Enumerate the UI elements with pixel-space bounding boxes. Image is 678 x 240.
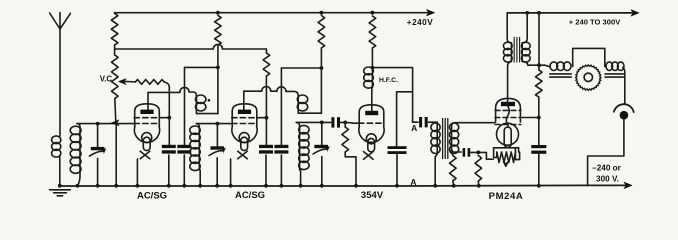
resistor R7 anode feed: [371, 11, 375, 15]
wire bias row: [452, 151, 462, 153]
coil L4 RF secondary: [198, 127, 201, 186]
speaker movement: [545, 65, 550, 67]
coil L6 detector secondary: [300, 126, 301, 186]
node screen junction V2: [265, 116, 269, 120]
wire antenna down-lead: [59, 29, 61, 136]
svg-text:AC/SG: AC/SG: [235, 190, 265, 201]
wire: [164, 82, 169, 93]
wire L1 to earth bus: [59, 157, 61, 186]
svg-text:A: A: [411, 123, 417, 133]
capacitor C5 grid condenser: [331, 117, 334, 127]
transformer T2 output: [507, 13, 511, 61]
wire V2 top cap anode: [243, 91, 245, 109]
transformer T1 AF intervalve: [435, 122, 437, 186]
potentiometer VC volume control: [112, 55, 119, 99]
svg-text:–240 or: –240 or: [592, 164, 621, 173]
wire to filament: [478, 152, 493, 159]
wire +240-300V HT bus: [507, 12, 632, 15]
resistor R10 field/divider: [537, 11, 541, 15]
coil HFC choke: [371, 68, 373, 88]
wire: [114, 45, 116, 55]
tube V2 AC/SG: [232, 104, 257, 127]
wire heater lead V2: [230, 159, 232, 186]
wire anode tap to AF: [372, 68, 412, 123]
variable capacitor VC1 tuning: [96, 122, 100, 126]
svg-text:AC/SG: AC/SG: [137, 191, 167, 202]
coil L3 RF transformer primary: [196, 96, 218, 114]
capacitor C4 bypass: [280, 68, 282, 146]
wiper arrow of V.C pot: [119, 79, 127, 85]
tube V4 PM24A output pentode: [496, 98, 521, 122]
node bias junction: [450, 150, 454, 154]
svg-text:+240V: +240V: [407, 18, 433, 27]
wire screen bypass branch: [169, 91, 180, 93]
capacitor C1 bypass: [162, 145, 176, 148]
wire to tube V1 top cap: [148, 92, 169, 110]
svg-text:300 V.: 300 V.: [596, 175, 619, 184]
wire to V4 grid: [455, 122, 495, 124]
resistor R5 anode load 2: [320, 11, 324, 15]
resistor R8 bias: [450, 156, 457, 182]
capacitor C9 output: [531, 145, 546, 148]
arrow on grid wire: [112, 120, 120, 126]
capacitor C3 bypass: [259, 145, 273, 148]
capacitor C8 bias bypass: [463, 148, 466, 157]
svg-text:354V: 354V: [361, 190, 384, 201]
capacitor C2 bypass: [184, 67, 186, 146]
wire earth bus: [60, 184, 626, 187]
coil L2 secondary: [77, 127, 80, 186]
ground: [58, 184, 62, 188]
resistor R1 decoupling: [111, 13, 118, 45]
wire V3 top cap: [371, 88, 373, 111]
svg-text:+ 240 TO 300V: + 240 TO 300V: [569, 18, 622, 27]
wire grid line stage1: [77, 123, 136, 125]
jack pickup: [614, 104, 634, 112]
wire grid line stage2: [196, 123, 232, 125]
svg-text:PM24A: PM24A: [489, 191, 524, 201]
wire grid line detector: [296, 122, 299, 126]
capacitor C6 anode bypass: [388, 146, 407, 149]
coil L1 aerial primary: [52, 136, 61, 144]
coil L5 RF transformer2 primary: [298, 96, 321, 114]
resistor R4 screen feed: [265, 49, 267, 53]
wire anode feed stage2: [281, 67, 321, 69]
wire screen bus: [115, 48, 214, 50]
wire bypass branch: [397, 92, 413, 146]
resistor R2 grid stopper (horizontal): [136, 80, 165, 85]
resistor R3 anode load: [216, 11, 220, 15]
filament crown of V4: [494, 147, 519, 149]
svg-text:V.C: V.C: [100, 75, 113, 84]
wire screen tap V4: [520, 117, 538, 119]
variable capacitor VC3: [320, 121, 324, 125]
svg-text:H.F.C.: H.F.C.: [379, 77, 398, 84]
wire +240V HT bus: [115, 12, 429, 15]
wire heater lead V1: [136, 159, 138, 186]
resistor R9 bias: [475, 156, 482, 182]
tube V1 AC/SG: [135, 104, 160, 127]
wire screen feed: [185, 66, 218, 68]
node screen junction: [167, 116, 171, 120]
antenna: [50, 13, 71, 29]
wire pot return to earth: [115, 124, 117, 186]
capacitor C7 AF coupling: [413, 121, 418, 123]
tube V3 354V detector: [359, 105, 384, 127]
resistor R6 grid leak: [343, 121, 347, 125]
variable capacitor VC2: [216, 122, 220, 126]
